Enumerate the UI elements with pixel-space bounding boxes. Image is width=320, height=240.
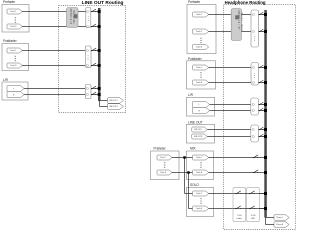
svg-text:Track 1: Track 1	[10, 49, 16, 52]
svg-text:L/R: L/R	[3, 78, 9, 82]
svg-text:LINE OUT R: LINE OUT R	[109, 106, 119, 108]
svg-text:Track 1: Track 1	[196, 192, 202, 195]
svg-text:LINE OUT Routing: LINE OUT Routing	[82, 0, 124, 6]
svg-text:LINE OUT R: LINE OUT R	[194, 136, 203, 138]
svg-text:Prefader: Prefader	[188, 0, 201, 4]
svg-text:SOLO: SOLO	[190, 183, 199, 187]
svg-text:Track 8: Track 8	[196, 46, 202, 49]
svg-text:Track 2: Track 2	[196, 30, 202, 33]
svg-text:Prefader: Prefader	[154, 147, 167, 151]
svg-text:L/R: L/R	[188, 93, 194, 97]
svg-text:Phones L: Phones L	[276, 217, 283, 219]
svg-text:LINE OUT L: LINE OUT L	[109, 100, 118, 102]
svg-text:Phones R: Phones R	[276, 224, 284, 226]
svg-text:LINE OUT L: LINE OUT L	[194, 129, 202, 131]
svg-text:Fader: Fader	[237, 218, 243, 220]
svg-text:Stereo / Mono: Stereo / Mono	[240, 13, 243, 32]
svg-text:MONO×2 /S: MONO×2 /S	[69, 9, 72, 25]
svg-text:MIX: MIX	[190, 147, 197, 151]
svg-text:LINE OUT: LINE OUT	[188, 120, 203, 124]
svg-text:Track 8: Track 8	[10, 64, 16, 67]
svg-text:Track 1: Track 1	[10, 10, 16, 13]
svg-text:Track 1: Track 1	[196, 66, 202, 69]
svg-text:Track 8: Track 8	[196, 81, 202, 84]
svg-text:Track 1: Track 1	[196, 13, 202, 16]
svg-text:Postfader: Postfader	[3, 39, 18, 43]
svg-text:Track 8: Track 8	[10, 25, 16, 28]
svg-text:Track 1: Track 1	[196, 156, 202, 159]
svg-text:Prefader: Prefader	[3, 0, 16, 4]
svg-text:Track 8: Track 8	[196, 207, 202, 210]
svg-text:Headphone Routing: Headphone Routing	[225, 0, 266, 5]
svg-text:MONO ×2 / ST: MONO ×2 / ST	[237, 11, 240, 31]
svg-text:Track 1: Track 1	[160, 157, 166, 159]
svg-text:Track 8: Track 8	[196, 171, 202, 174]
svg-text:Postfader: Postfader	[188, 57, 203, 61]
svg-text:Track 8: Track 8	[160, 172, 166, 174]
